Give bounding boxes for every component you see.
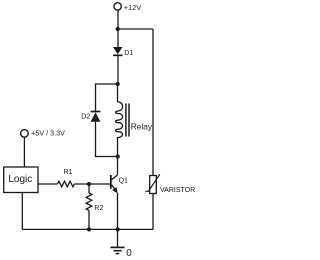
ground symbol bbox=[111, 229, 125, 253]
svg-text:D2: D2 bbox=[81, 113, 90, 120]
wire: top node left to D2 branch bbox=[96, 84, 118, 111]
relay coil L1 bbox=[116, 84, 123, 157]
wire: D2 anode down to bottom node bbox=[96, 122, 118, 157]
wire: base wire from logic box through R1 to Q1 base bbox=[38, 183, 58, 185]
node: top junction (relay / D2) bbox=[116, 82, 120, 86]
svg-text:R2: R2 bbox=[94, 205, 103, 212]
relay core bars bbox=[125, 104, 127, 137]
svg-text:0: 0 bbox=[126, 248, 132, 259]
varistor diagonal stroke bbox=[145, 174, 160, 191]
svg-text:Q1: Q1 bbox=[119, 177, 128, 184]
node: emitter / rail junction bbox=[116, 227, 120, 231]
wire: D1 cathode down to relay top node bbox=[117, 56, 119, 84]
diode D2 flyback (cathode top) bbox=[91, 112, 101, 122]
terminal +12V bbox=[114, 3, 121, 10]
svg-text:Relay: Relay bbox=[131, 121, 153, 131]
transistor Q1 (NPN) bbox=[110, 175, 118, 193]
svg-text:+5V / 3.3V: +5V / 3.3V bbox=[31, 129, 65, 138]
wire: Q1 emitter down to ground rail bbox=[117, 193, 119, 229]
wire: R1 to base node to Q1 base bbox=[74, 183, 110, 185]
terminal +5V/3.3V bbox=[21, 130, 29, 138]
wire: bottom node down to Q1 collector bbox=[117, 157, 119, 176]
node: bottom junction (relay / D2 / collector) bbox=[116, 154, 120, 158]
resistor R1 bbox=[58, 181, 75, 187]
wire: varistor branch vertical down bbox=[152, 29, 154, 176]
varistor RV1 body bbox=[150, 176, 157, 194]
svg-text:D1: D1 bbox=[124, 50, 133, 57]
wire: branch to varistor (horizontal) bbox=[118, 28, 153, 30]
diode D1 (anode top, cathode down) bbox=[113, 47, 123, 55]
wire: base node down to R2 bbox=[88, 184, 90, 193]
svg-text:R1: R1 bbox=[64, 169, 73, 176]
resistor R2 bbox=[86, 193, 92, 211]
wire: varistor bottom to ground rail bbox=[152, 194, 154, 230]
node: junction of +12V rail and varistor branch bbox=[116, 27, 120, 31]
wire: +5V terminal down to logic box bbox=[23, 137, 25, 167]
logic block U1 bbox=[4, 167, 38, 193]
node: base junction (R1/R2) bbox=[87, 182, 91, 186]
wire: rail left end up to logic box bbox=[21, 193, 23, 230]
wire: R2 bottom to ground rail bbox=[88, 211, 90, 230]
svg-text:Logic: Logic bbox=[8, 174, 32, 185]
wire: +12V terminal down to D1 bbox=[117, 10, 119, 47]
svg-text:+12V: +12V bbox=[124, 3, 142, 12]
wire: ground rail (bottom) bbox=[22, 228, 153, 230]
svg-text:VARISTOR: VARISTOR bbox=[160, 187, 195, 194]
node: R2 / rail junction bbox=[87, 227, 91, 231]
